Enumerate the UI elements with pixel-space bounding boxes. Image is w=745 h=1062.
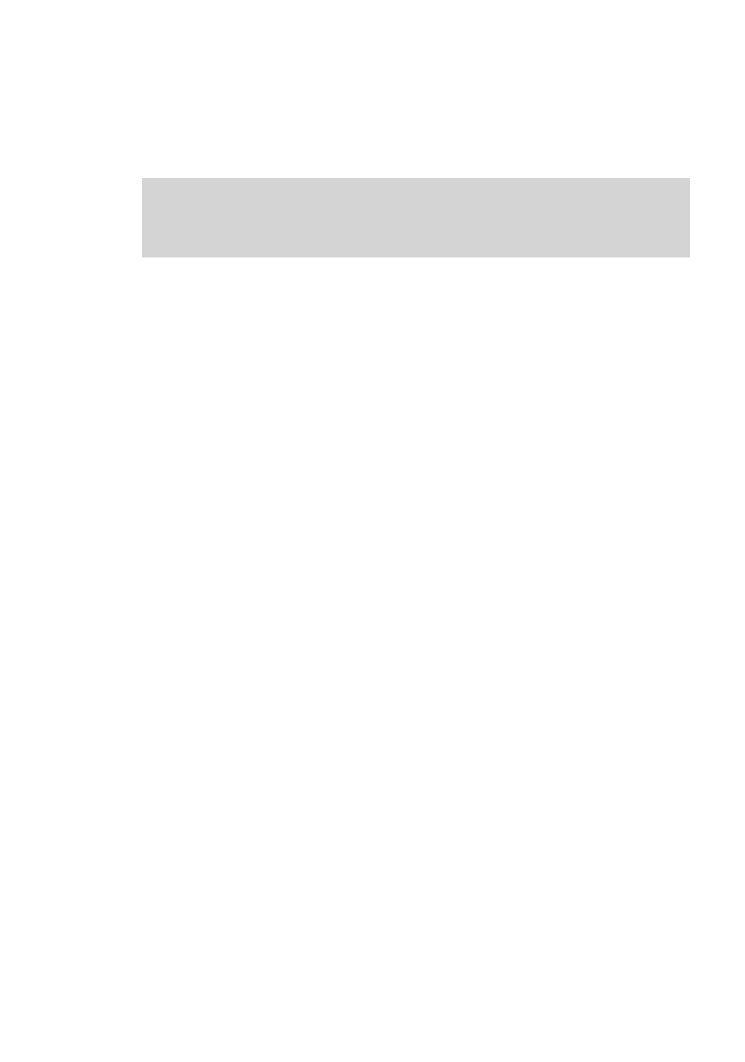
junction block gray band [142,178,690,258]
